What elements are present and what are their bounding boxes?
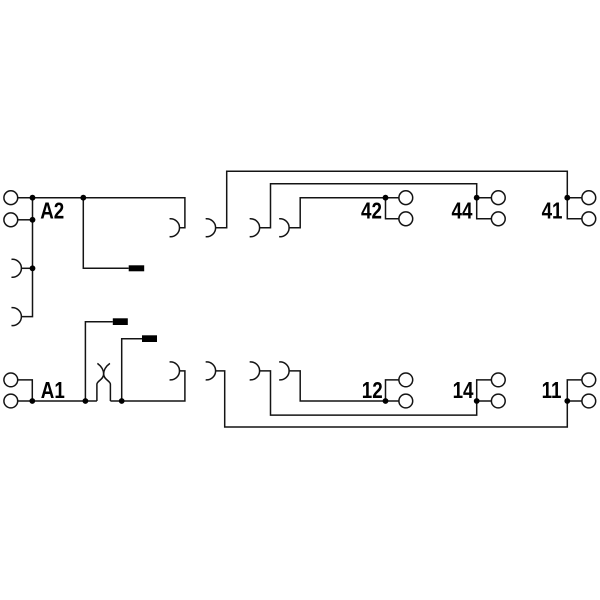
svg-text:11: 11 xyxy=(542,377,562,404)
svg-text:A1: A1 xyxy=(41,377,65,404)
svg-text:44: 44 xyxy=(452,198,473,225)
svg-text:14: 14 xyxy=(453,377,474,404)
svg-text:42: 42 xyxy=(361,198,382,225)
svg-text:12: 12 xyxy=(362,377,383,404)
svg-text:41: 41 xyxy=(542,198,563,225)
svg-text:A2: A2 xyxy=(40,198,64,225)
